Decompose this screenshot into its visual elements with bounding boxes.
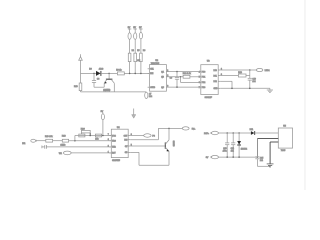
op IC U2	[148, 60, 169, 91]
svg-text:7: 7	[108, 134, 109, 136]
svg-text:QA: QA	[161, 70, 164, 73]
svg-text:5V+: 5V+	[192, 128, 196, 130]
resistor R12	[183, 73, 191, 78]
node	[226, 132, 228, 134]
connector J1 input	[22, 139, 36, 145]
svg-text:0V: 0V	[206, 157, 209, 159]
svg-text:PA2: PA2	[214, 80, 217, 83]
resistor R21	[95, 134, 101, 141]
svg-text:4148: 4148	[99, 68, 104, 70]
wire gnd pin dark	[257, 138, 278, 140]
svg-text:CK1: CK1	[150, 69, 154, 71]
node	[176, 71, 178, 73]
wire	[101, 72, 118, 74]
wire base	[130, 145, 165, 147]
wire to 5V connector	[130, 128, 182, 139]
wire rail	[81, 91, 147, 93]
svg-text:R12 1.5k: R12 1.5k	[183, 73, 191, 75]
svg-text:IN1: IN1	[22, 143, 26, 145]
svg-text:P3: P3	[152, 136, 155, 138]
wire U2 pin2	[166, 76, 183, 78]
svg-text:U4: U4	[117, 127, 121, 129]
wire main line	[81, 72, 97, 74]
capacitor C13	[223, 133, 230, 157]
wire	[46, 146, 111, 148]
svg-text:THR: THR	[112, 147, 116, 149]
svg-text:7805: 7805	[281, 150, 286, 152]
svg-text:PB0: PB0	[202, 71, 205, 73]
diode D12 zener	[237, 133, 247, 157]
wire	[124, 72, 149, 74]
svg-text:U5: U5	[283, 126, 287, 128]
wire top rail	[218, 132, 251, 134]
connector 5V column	[101, 111, 105, 137]
svg-text:2: 2	[108, 145, 109, 147]
wire	[190, 76, 201, 78]
regulator U5	[278, 126, 292, 153]
connector LED1	[256, 68, 270, 72]
wire	[220, 75, 238, 77]
connector 5V+	[182, 127, 196, 131]
svg-text:5V: 5V	[139, 27, 142, 29]
node	[176, 86, 178, 88]
svg-text:C8: C8	[97, 79, 99, 81]
connector 0V	[206, 155, 219, 159]
wire	[71, 152, 111, 154]
wire out	[220, 69, 256, 71]
node	[232, 132, 234, 134]
capacitor C14	[231, 133, 236, 157]
svg-text:R10: R10	[74, 86, 79, 88]
svg-text:C9: C9	[170, 78, 172, 80]
svg-text:6: 6	[199, 82, 200, 84]
svg-text:R18: R18	[62, 135, 67, 137]
connector P3	[144, 134, 156, 138]
svg-text:U2: U2	[155, 60, 159, 62]
wire	[69, 140, 112, 142]
ground arrow above U4	[132, 109, 136, 119]
svg-text:D9: D9	[89, 68, 92, 70]
node cap tap	[93, 73, 95, 75]
resistor R10	[74, 83, 82, 91]
svg-text:7: 7	[199, 87, 200, 89]
svg-text:104: 104	[149, 96, 152, 98]
wire U2-U3 bottom	[166, 86, 200, 88]
wire	[36, 140, 46, 142]
ground GND2	[267, 164, 274, 167]
svg-text:5V: 5V	[128, 27, 131, 29]
node	[226, 156, 228, 158]
svg-text:R4: R4	[132, 50, 134, 52]
svg-text:GND: GND	[214, 88, 219, 90]
svg-text:W1: W1	[59, 153, 63, 155]
node	[238, 156, 240, 158]
node	[238, 132, 240, 134]
svg-text:PA1: PA1	[214, 74, 217, 77]
wire	[255, 132, 279, 134]
svg-text:RST: RST	[112, 153, 116, 155]
capacitor C11 input	[42, 144, 65, 148]
svg-text:D11: D11	[250, 129, 254, 131]
capacitor C15	[255, 157, 270, 167]
svg-text:470u: 470u	[223, 150, 227, 152]
svg-text:104: 104	[260, 160, 263, 162]
svg-text:PB1: PB1	[202, 77, 205, 79]
node riser	[74, 140, 76, 142]
wire bottom loop	[130, 152, 169, 165]
svg-text:R9 1k: R9 1k	[116, 69, 121, 71]
node base tap	[108, 73, 110, 75]
resistor R9	[116, 69, 124, 75]
resistor R18	[62, 135, 69, 146]
svg-text:R19 10k: R19 10k	[45, 136, 52, 138]
IC U3	[199, 60, 222, 98]
wire loop pin PA2	[220, 81, 232, 88]
svg-text:74HC595: 74HC595	[151, 63, 160, 65]
IC U4	[108, 127, 132, 162]
resistor R20 feedback	[81, 129, 91, 136]
svg-text:PA0: PA0	[214, 69, 217, 72]
svg-text:CV: CV	[125, 146, 128, 148]
wire drop	[256, 139, 258, 157]
svg-text:TRG: TRG	[112, 141, 116, 143]
node	[257, 156, 259, 158]
power flag VCC1	[79, 54, 83, 60]
connector C7 below rail	[145, 92, 152, 99]
border frame right edge	[304, 0, 306, 190]
diode D11	[250, 129, 255, 135]
wire bottom rail	[218, 156, 257, 158]
connector W1	[59, 151, 71, 155]
svg-text:104: 104	[231, 150, 234, 152]
connector 24V+	[204, 131, 218, 135]
wire bracket	[181, 77, 201, 83]
ground GND1	[267, 88, 273, 92]
svg-text:QC: QC	[161, 87, 164, 89]
node	[180, 76, 182, 78]
svg-text:S8550: S8550	[103, 89, 111, 92]
node	[249, 88, 251, 90]
svg-text:PB3: PB3	[202, 87, 205, 89]
svg-text:10k: 10k	[95, 139, 98, 141]
svg-text:GD: GD	[125, 152, 128, 154]
svg-text:6: 6	[108, 139, 109, 141]
svg-text:5: 5	[199, 77, 200, 79]
svg-text:DIN: DIN	[150, 73, 154, 75]
svg-text:R6: R6	[143, 50, 145, 52]
wire mid line	[75, 135, 111, 137]
wire gnd run	[220, 87, 270, 89]
svg-text:9S012F: 9S012F	[205, 97, 213, 99]
svg-text:OUT: OUT	[124, 135, 129, 137]
capacitor C8	[92, 73, 99, 87]
resistor R13	[238, 72, 246, 77]
svg-text:S8050: S8050	[172, 141, 174, 148]
svg-text:LED1: LED1	[265, 70, 271, 72]
svg-text:DIS: DIS	[124, 140, 128, 142]
svg-text:104: 104	[252, 81, 255, 83]
wire U2-U3 top	[166, 71, 200, 73]
diode D9	[89, 68, 104, 76]
capacitor C10	[248, 78, 256, 88]
svg-text:R5: R5	[137, 50, 139, 52]
resistor R19	[45, 136, 53, 142]
svg-text:PB2: PB2	[202, 82, 205, 84]
svg-text:QB: QB	[161, 77, 164, 79]
wire	[80, 91, 82, 92]
node	[168, 128, 170, 130]
svg-text:24V+: 24V+	[204, 133, 210, 135]
wire riser	[74, 136, 76, 141]
svg-text:U3: U3	[207, 60, 211, 62]
wire	[246, 70, 250, 78]
svg-text:VCC: VCC	[112, 135, 116, 137]
LED column 1	[128, 27, 134, 74]
wire out	[130, 135, 144, 137]
svg-text:4: 4	[199, 71, 200, 73]
svg-text:OUT3: OUT3	[150, 87, 155, 89]
wire	[53, 140, 63, 142]
wire emitter link	[94, 86, 104, 88]
node	[249, 69, 251, 71]
transistor Q7	[103, 73, 114, 92]
svg-text:SM6T15: SM6T15	[112, 160, 121, 162]
node	[232, 156, 234, 158]
svg-text:1N4744: 1N4744	[241, 148, 247, 150]
transistor Q8	[165, 128, 174, 165]
LED column 3	[139, 27, 145, 74]
node	[89, 135, 91, 137]
resistor R16	[79, 134, 85, 137]
wire out pin dark	[270, 142, 278, 164]
svg-text:1: 1	[108, 151, 109, 153]
node	[231, 88, 233, 90]
wire	[80, 60, 82, 83]
svg-text:5V: 5V	[133, 27, 136, 29]
capacitor C9	[170, 72, 180, 88]
LED column 2	[133, 27, 140, 74]
